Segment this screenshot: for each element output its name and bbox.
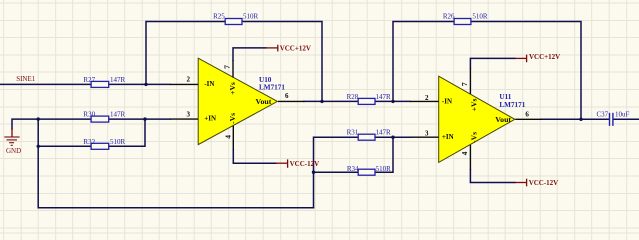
svg-text:C37: C37: [597, 111, 609, 119]
svg-text:VCC-12V: VCC-12V: [290, 160, 320, 168]
svg-text:-IN: -IN: [204, 80, 214, 88]
svg-text:LM7171: LM7171: [499, 101, 525, 109]
svg-text:LM7171: LM7171: [259, 84, 285, 92]
svg-text:147R: 147R: [376, 93, 392, 101]
svg-text:SINE1: SINE1: [16, 75, 36, 83]
svg-text:147R: 147R: [110, 76, 126, 84]
svg-text:3: 3: [187, 111, 191, 119]
svg-text:U11: U11: [499, 93, 511, 101]
svg-text:GND: GND: [6, 147, 21, 155]
svg-text:510R: 510R: [472, 12, 488, 20]
svg-text:+Vs: +Vs: [228, 82, 237, 95]
svg-text:7: 7: [223, 65, 232, 69]
svg-text:+IN: +IN: [442, 133, 454, 141]
svg-text:R31: R31: [347, 129, 359, 137]
svg-text:+IN: +IN: [204, 115, 216, 123]
svg-text:R26: R26: [443, 12, 455, 20]
svg-text:510R: 510R: [243, 12, 259, 20]
svg-text:-Vs: -Vs: [469, 132, 478, 143]
svg-text:2: 2: [187, 75, 191, 83]
svg-text:R34: R34: [347, 165, 359, 173]
svg-text:510R: 510R: [110, 138, 126, 146]
svg-text:4: 4: [460, 151, 469, 155]
svg-text:10uF: 10uF: [615, 111, 630, 119]
svg-text:Vout: Vout: [256, 97, 272, 106]
svg-text:-Vs: -Vs: [228, 113, 237, 124]
svg-text:R32: R32: [83, 138, 95, 146]
svg-text:VCC-12V: VCC-12V: [529, 179, 559, 187]
svg-text:-IN: -IN: [442, 97, 452, 105]
svg-text:7: 7: [460, 82, 469, 86]
svg-text:6: 6: [525, 110, 529, 118]
svg-text:R27: R27: [83, 76, 95, 84]
svg-text:6: 6: [285, 92, 289, 100]
svg-text:Vout: Vout: [495, 115, 511, 124]
svg-text:R30: R30: [83, 111, 95, 119]
svg-text:510R: 510R: [376, 165, 392, 173]
svg-text:4: 4: [223, 135, 232, 139]
svg-text:2: 2: [425, 94, 429, 102]
svg-text:3: 3: [425, 130, 429, 138]
svg-text:R25: R25: [213, 12, 225, 20]
svg-text:147R: 147R: [110, 111, 126, 119]
svg-text:R28: R28: [347, 93, 359, 101]
svg-text:VCC+12V: VCC+12V: [529, 53, 560, 61]
svg-text:147R: 147R: [376, 129, 392, 137]
svg-text:+Vs: +Vs: [469, 99, 478, 112]
svg-text:VCC+12V: VCC+12V: [280, 45, 311, 53]
